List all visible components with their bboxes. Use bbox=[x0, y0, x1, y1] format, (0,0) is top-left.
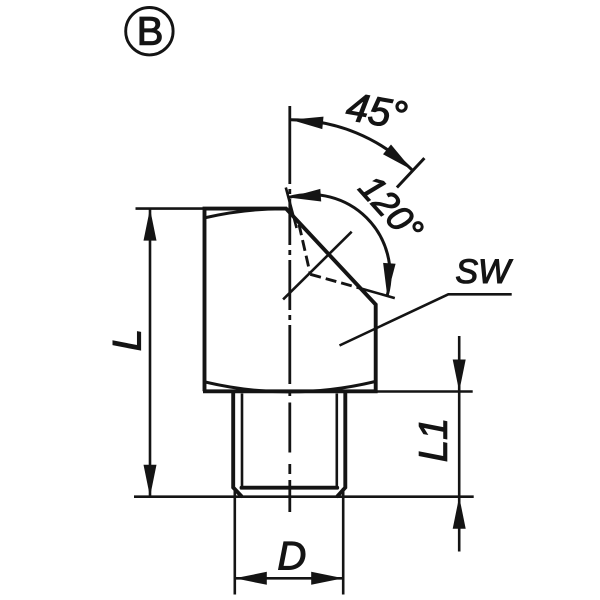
label SW bbox=[456, 259, 512, 283]
funnel edge left extension (solid) bbox=[286, 188, 297, 229]
120deg arrow upper bbox=[289, 189, 322, 202]
letter B bbox=[140, 17, 161, 45]
top bevel line bbox=[206, 209, 283, 218]
45deg dimension arc bbox=[291, 120, 413, 170]
label D bbox=[279, 542, 305, 570]
D dimension line bbox=[235, 577, 343, 580]
hidden funnel edge right (dashed) bbox=[310, 274, 361, 288]
view label circle B bbox=[126, 8, 173, 55]
label 120deg bbox=[357, 173, 425, 244]
bottom bevel arc bbox=[205, 382, 375, 392]
funnel axis tick (45deg arm) bbox=[397, 158, 425, 187]
L1 arrow lower (pointing up) bbox=[453, 497, 466, 529]
D arrow right bbox=[311, 572, 343, 585]
hidden funnel edge left (dashed) bbox=[299, 225, 310, 275]
D arrow left bbox=[235, 572, 267, 585]
thread core lines bbox=[242, 394, 337, 487]
D extension line right bbox=[342, 488, 345, 595]
L1 arrow upper (pointing down) bbox=[453, 360, 466, 392]
45deg arrow left bbox=[291, 117, 324, 130]
L extension line top bbox=[136, 207, 206, 210]
label 45deg bbox=[345, 92, 408, 130]
120deg arrow lower bbox=[383, 263, 396, 296]
L arrow down bbox=[144, 465, 157, 497]
body outline bbox=[203, 209, 376, 392]
L1 dimension line bbox=[458, 336, 461, 552]
threaded stud outline bbox=[233, 392, 345, 496]
SW leader line bbox=[340, 294, 512, 345]
45deg arrow right bbox=[383, 145, 412, 170]
funnel axis centerline bbox=[283, 232, 352, 300]
L arrow up bbox=[144, 209, 157, 241]
label L1 bbox=[419, 421, 447, 461]
120deg dimension arc bbox=[289, 195, 390, 296]
bottom baseline extension bbox=[134, 495, 474, 498]
vertical centerline bbox=[288, 106, 291, 512]
L1 extension line top bbox=[377, 390, 473, 393]
label L bbox=[113, 332, 141, 350]
L dimension line bbox=[149, 209, 152, 497]
funnel edge right extension (solid) bbox=[362, 289, 395, 299]
D extension line left bbox=[234, 488, 237, 595]
